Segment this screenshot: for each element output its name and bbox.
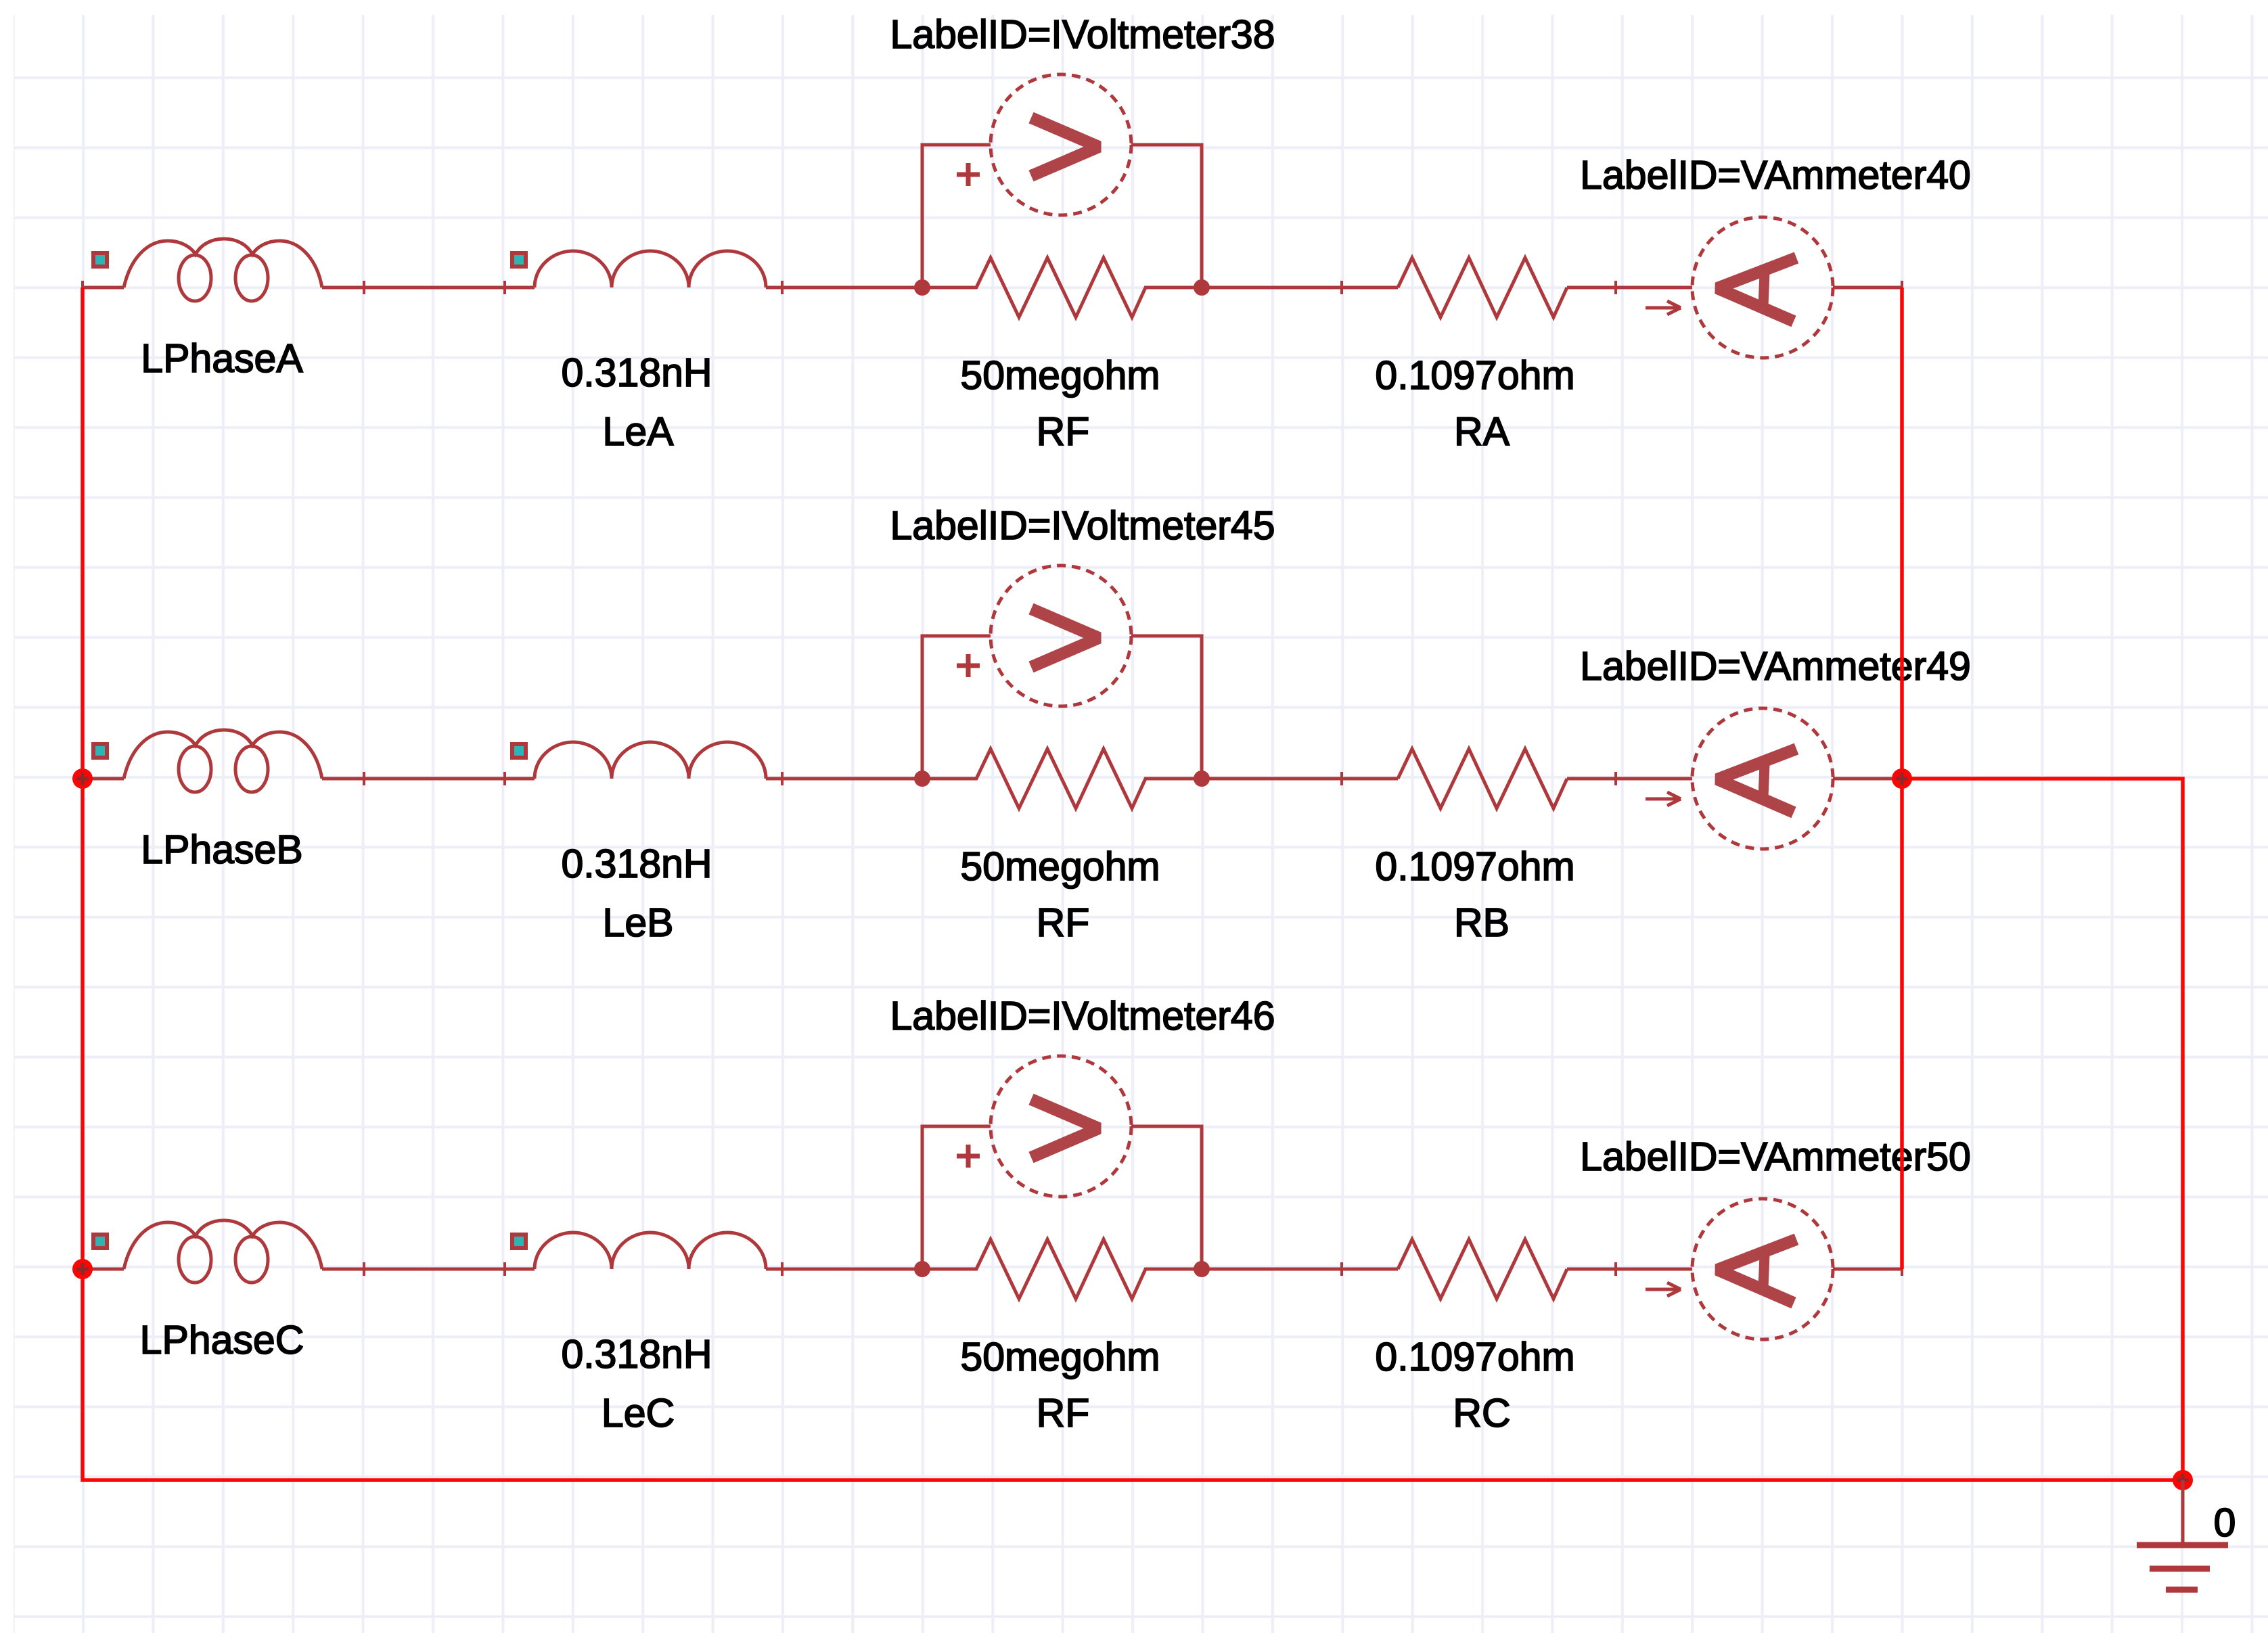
svg-text:LabelID=IVoltmeter38: LabelID=IVoltmeter38: [890, 12, 1275, 57]
wire: left vertical bus and bottom return (net): [83, 287, 2183, 1480]
wire: node to RC: [1202, 1262, 1398, 1276]
wire: voltmeter branch right: [1131, 145, 1202, 287]
wire: left node to LPhaseC: [81, 1262, 124, 1276]
junction node (122,1876): [72, 1259, 93, 1279]
svg-text:RA: RA: [1454, 409, 1510, 454]
svg-text:50megohm: 50megohm: [960, 1335, 1160, 1379]
svg-text:LPhaseC: LPhaseC: [140, 1318, 304, 1362]
svg-text:LabelID=IVoltmeter46: LabelID=IVoltmeter46: [890, 994, 1275, 1038]
ammeter VAmmeter40: [1692, 217, 1833, 358]
wire: voltmeter branch left: [922, 636, 991, 779]
svg-text:LeB: LeB: [603, 900, 674, 945]
svg-text:RB: RB: [1454, 900, 1510, 945]
junction node (122,1151): [72, 768, 93, 789]
inductor LPhaseA: [93, 239, 322, 301]
inductor LeA (0.318nH): [512, 251, 766, 287]
wire: voltmeter branch left: [922, 1126, 991, 1269]
current arrow: [1646, 792, 1681, 806]
svg-text:LabelID=IVoltmeter45: LabelID=IVoltmeter45: [890, 503, 1275, 548]
node: RF left junction: [914, 279, 930, 296]
junction node (3226,2188): [2173, 1470, 2193, 1490]
svg-text:RF: RF: [1037, 409, 1090, 454]
wire: RC to ammeter: [1567, 1262, 1692, 1276]
svg-text:LeA: LeA: [603, 409, 675, 454]
svg-text:LPhaseA: LPhaseA: [141, 336, 303, 381]
inductor LeB (0.318nH): [512, 742, 766, 779]
svg-text:LPhaseB: LPhaseB: [141, 827, 302, 872]
resistor RF (50megohm): [922, 1239, 1202, 1299]
node: RF right junction: [1194, 770, 1210, 787]
wire: ammeter-A output vertical to phase C: [1900, 287, 1904, 1269]
svg-text:LabelID=VAmmeter50: LabelID=VAmmeter50: [1580, 1134, 1971, 1179]
current arrow: [1646, 301, 1681, 315]
wire: phase B output to right vertical bus: [1902, 779, 2183, 1480]
wire: ammeter output: [1833, 772, 1903, 785]
svg-text:RF: RF: [1037, 1391, 1090, 1435]
inductor LeC (0.318nH): [512, 1233, 766, 1269]
wire: voltmeter branch right: [1131, 636, 1202, 779]
junction node (2811,1151): [1892, 768, 1912, 789]
wire: LeB to node: [766, 772, 922, 785]
node: RF right junction: [1194, 279, 1210, 296]
wire: ammeter output: [1833, 1262, 1903, 1276]
node: RF right junction: [1194, 1261, 1210, 1277]
resistor RB (0.1097ohm): [1398, 749, 1567, 808]
svg-text:LeC: LeC: [602, 1391, 675, 1435]
wire: node to RA: [1202, 281, 1398, 294]
svg-text:0.318nH: 0.318nH: [561, 350, 712, 395]
ground: [2137, 1480, 2228, 1590]
ammeter VAmmeter50: [1692, 1199, 1833, 1339]
resistor RC (0.1097ohm): [1398, 1239, 1567, 1299]
current arrow: [1646, 1283, 1681, 1296]
svg-text:0.318nH: 0.318nH: [561, 842, 712, 886]
wire: node to RB: [1202, 772, 1398, 785]
wire: LeC to node: [766, 1262, 922, 1276]
voltmeter IVoltmeter45: [957, 566, 1131, 706]
wire: voltmeter branch left: [922, 145, 991, 287]
node: RF left junction: [914, 1261, 930, 1277]
resistor RF (50megohm): [922, 258, 1202, 317]
wire: ammeter output: [1833, 281, 1903, 294]
svg-text:RC: RC: [1453, 1391, 1510, 1435]
wire: LeA to node: [766, 281, 922, 294]
inductor LPhaseC: [93, 1220, 322, 1283]
svg-text:0.318nH: 0.318nH: [561, 1332, 712, 1377]
resistor RA (0.1097ohm): [1398, 258, 1567, 317]
wire: RA to ammeter: [1567, 281, 1692, 294]
node: RF left junction: [914, 770, 930, 787]
svg-text:0: 0: [2214, 1500, 2236, 1545]
voltmeter IVoltmeter46: [957, 1056, 1131, 1197]
wire: RB to ammeter: [1567, 772, 1692, 785]
svg-text:50megohm: 50megohm: [960, 844, 1160, 889]
wire: LPhaseB to LeB: [322, 772, 535, 785]
ammeter VAmmeter49: [1692, 708, 1833, 849]
svg-text:0.1097ohm: 0.1097ohm: [1375, 1335, 1574, 1379]
svg-text:RF: RF: [1037, 900, 1090, 945]
resistor RF (50megohm): [922, 749, 1202, 808]
svg-text:LabelID=VAmmeter49: LabelID=VAmmeter49: [1580, 644, 1971, 689]
svg-text:0.1097ohm: 0.1097ohm: [1375, 353, 1574, 398]
wire: left node to LPhaseB: [81, 772, 124, 785]
wire: left node to LPhaseA: [81, 281, 124, 294]
wire: voltmeter branch right: [1131, 1126, 1202, 1269]
svg-text:0.1097ohm: 0.1097ohm: [1375, 844, 1574, 889]
inductor LPhaseB: [93, 730, 322, 792]
svg-text:LabelID=VAmmeter40: LabelID=VAmmeter40: [1580, 153, 1971, 198]
wire: LPhaseA to LeA: [322, 281, 535, 294]
voltmeter IVoltmeter38: [957, 74, 1131, 215]
svg-text:50megohm: 50megohm: [960, 353, 1160, 398]
wire: LPhaseC to LeC: [322, 1262, 535, 1276]
